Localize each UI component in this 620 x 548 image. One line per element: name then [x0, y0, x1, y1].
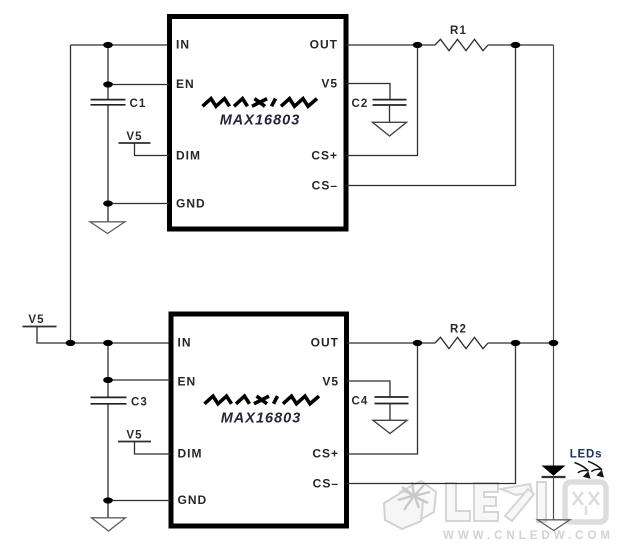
wire: inter-stage vertical (top IN to bottom IN net) — [70, 45, 72, 343]
wire: EN to C1 node (top) — [108, 84, 169, 86]
svg-text:DIM: DIM — [178, 447, 203, 461]
wire: V5 to C2 (U1) — [346, 84, 390, 100]
svg-text:MAX16803: MAX16803 — [220, 113, 301, 129]
MAXIM logo (U2) — [205, 396, 320, 404]
wire: C3 branch vertical (bottom) — [107, 343, 109, 518]
power symbol V5 (U2 DIM) — [118, 441, 151, 443]
capacitor C2 — [373, 100, 407, 105]
wire: C2 to ground stub — [389, 105, 391, 122]
svg-text:DIM: DIM — [176, 149, 201, 163]
wire: LED string vertical — [553, 45, 555, 466]
LED light arrows — [575, 461, 603, 473]
svg-text:EN: EN — [176, 77, 195, 91]
wire: CS- sense (U2) — [347, 343, 516, 484]
wire: V5 to C4 (U2) — [347, 381, 390, 397]
watermark stylized glyph — [501, 482, 546, 522]
wire: OUT to R1 (top) — [346, 44, 435, 46]
junction dot (V5/IN bottom left) — [66, 340, 76, 346]
junction dot (OUT/R2 left) — [413, 340, 423, 346]
watermark starburst — [398, 482, 430, 510]
wire: R1 to LED string node — [488, 44, 554, 46]
svg-text:V5: V5 — [28, 314, 44, 326]
svg-text:CS–: CS– — [312, 179, 338, 193]
junction dot (EN/C3 bottom) — [103, 377, 113, 383]
resistor R2 — [435, 337, 488, 348]
power symbol V5 (bottom left supply) — [23, 326, 57, 328]
svg-text:IN: IN — [176, 38, 190, 52]
capacitor C1 — [91, 100, 126, 105]
wire: V5 to DIM (U2) — [135, 442, 171, 455]
wire: CS+ sense (U2) — [347, 343, 418, 454]
junction dot (LED string node) — [549, 340, 559, 346]
svg-text:R2: R2 — [450, 324, 467, 336]
watermark glyph wang box — [565, 482, 606, 522]
wire: GND pin (U1) — [108, 203, 169, 205]
wire: OUT to R2 (bottom) — [347, 342, 435, 344]
wire: LED cathode to ground — [553, 478, 555, 520]
power symbol V5 (U1 DIM) — [119, 142, 151, 144]
svg-text:C4: C4 — [352, 396, 369, 408]
svg-text:GND: GND — [176, 197, 206, 211]
wire: EN to C3 node (bottom) — [108, 379, 171, 381]
wire: top IN line — [71, 44, 170, 46]
svg-text:WWW.CNLEDW.COM: WWW.CNLEDW.COM — [443, 530, 614, 542]
svg-text:GND: GND — [178, 493, 208, 507]
watermark letter E — [474, 483, 498, 521]
svg-text:OUT: OUT — [310, 38, 338, 52]
wire: V5 to DIM (U1) — [135, 143, 170, 156]
capacitor C3 — [91, 397, 127, 403]
junction dot (OUT/R1 left) — [413, 42, 423, 48]
LED D1 — [542, 466, 566, 476]
svg-text:CS+: CS+ — [311, 149, 338, 163]
IC U2 MAX16803 (bottom) — [171, 314, 347, 526]
wire: V5 supply to IN line (bottom) — [37, 327, 170, 344]
ground (LED string) — [538, 520, 571, 531]
svg-text:LEDs: LEDs — [570, 449, 603, 461]
junction dot (IN/C3 bottom) — [103, 340, 113, 346]
MAXIM logo (U1) — [203, 99, 318, 107]
wire: GND pin (U2) — [108, 500, 171, 502]
svg-text:C2: C2 — [352, 98, 369, 110]
wire: C1 branch vertical (top) — [107, 45, 109, 222]
watermark logo hexagons — [384, 481, 436, 529]
svg-text:CS+: CS+ — [312, 447, 339, 461]
wire: CS+ sense (U1) — [346, 45, 418, 156]
ground (C2) — [373, 122, 407, 136]
svg-text:IN: IN — [178, 336, 192, 350]
ground (C4) — [373, 420, 407, 433]
junction dot (R1 right) — [511, 42, 521, 48]
svg-text:V5: V5 — [126, 131, 142, 143]
svg-text:CS–: CS– — [313, 477, 339, 491]
wire: C4 to ground stub — [389, 404, 391, 421]
svg-text:EN: EN — [178, 375, 197, 389]
svg-text:R1: R1 — [450, 25, 467, 37]
svg-text:V5: V5 — [322, 375, 339, 389]
junction dot (GND/C1 top) — [103, 200, 113, 206]
junction dot (R2 right) — [511, 340, 521, 346]
wire: CS- sense (U1) — [346, 45, 516, 186]
svg-text:C3: C3 — [131, 397, 148, 409]
wire: R2 to LED string node — [488, 342, 554, 344]
svg-text:V5: V5 — [321, 77, 338, 91]
svg-text:OUT: OUT — [311, 336, 339, 350]
junction dot (IN/C1 top) — [103, 42, 113, 48]
svg-text:MAX16803: MAX16803 — [221, 411, 302, 427]
capacitor C4 — [375, 397, 409, 404]
watermark letter L — [446, 483, 470, 521]
resistor R1 — [435, 39, 488, 50]
IC U1 MAX16803 (top) — [170, 17, 347, 230]
junction dot (EN/C1 top) — [103, 81, 113, 87]
ground (C1) — [90, 222, 125, 234]
svg-text:C1: C1 — [130, 98, 147, 110]
junction dot (GND/C3 bottom) — [103, 497, 113, 503]
svg-text:V5: V5 — [126, 430, 142, 442]
ground (C3) — [92, 518, 126, 531]
